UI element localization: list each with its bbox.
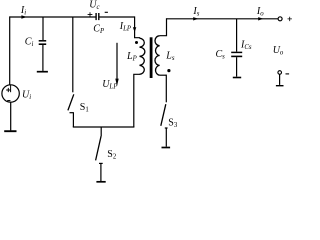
switch S3 bottom stub	[165, 128, 167, 147]
wire top-left rail	[10, 16, 96, 18]
output terminal + circle	[278, 17, 282, 21]
voltage source U1 circle	[2, 85, 19, 102]
wire jog to LP winding	[134, 37, 140, 40]
inductor Ls winding (4 arcs)	[155, 36, 160, 75]
switch S1 bottom stub	[72, 113, 74, 127]
switch S1 fixed contact tick	[70, 112, 74, 114]
ground bar under S3	[162, 147, 171, 149]
polarity dot LP	[135, 41, 138, 44]
wire Ls bottom connector	[160, 74, 167, 76]
ground bar under source	[4, 130, 16, 132]
current arrow ILP (down)	[133, 27, 136, 32]
switch S3 blade	[161, 104, 166, 126]
svg-text:CP: CP	[93, 24, 104, 36]
arrowhead ULP	[115, 79, 118, 86]
svg-text:Ii: Ii	[20, 5, 26, 17]
wire Ls top connector to rail	[160, 18, 167, 36]
capacitor C1 bottom stub	[42, 45, 44, 71]
wire rail CP to corner	[99, 16, 135, 18]
switch S3 fixed contact tick	[165, 127, 168, 129]
capacitor C1 plates	[39, 40, 47, 42]
ground bar under C1	[37, 71, 48, 73]
capacitor C1 top stub	[42, 17, 44, 40]
svg-text:Ui: Ui	[22, 89, 31, 101]
switch S2 blade	[96, 136, 102, 160]
svg-text:Ci: Ci	[25, 36, 34, 48]
capacitor C2 (CP) plates	[95, 13, 97, 20]
wire bottom horizontal	[73, 126, 135, 128]
inductor LP winding (4 arcs)	[140, 38, 145, 74]
wire source bottom to ground	[10, 102, 12, 130]
ground bar under Cs	[233, 77, 241, 79]
wire right rail	[167, 18, 278, 20]
svg-text:Uc: Uc	[89, 0, 99, 11]
svg-text:S2: S2	[107, 149, 117, 161]
svg-text:Ls: Ls	[165, 51, 175, 63]
switch S2 fixed contact tick	[99, 162, 103, 164]
svg-text:ULP: ULP	[102, 79, 117, 91]
switch S3 top stub	[165, 75, 167, 103]
voltage arrow ULP	[116, 43, 118, 79]
switch S1 blade	[68, 94, 74, 110]
svg-text:S3: S3	[168, 118, 178, 130]
bar under - terminal	[276, 85, 284, 87]
capacitor Cs top stub	[236, 19, 238, 52]
switch S2 bottom stub	[100, 163, 102, 181]
plus sign at output	[288, 17, 292, 21]
wire ILP vertical drop	[134, 16, 136, 37]
svg-text:ILP: ILP	[119, 21, 131, 33]
capacitor Cs plates	[231, 51, 242, 53]
svg-text:S1: S1	[80, 102, 89, 114]
svg-text:Is: Is	[192, 6, 199, 18]
svg-text:LP: LP	[126, 51, 137, 63]
wire left vertical to source	[9, 16, 11, 85]
capacitor Cs bottom stub	[236, 57, 238, 76]
transformer core	[150, 37, 153, 78]
minus sign at output	[286, 73, 290, 75]
wire - terminal stub	[279, 74, 281, 85]
svg-text:ICs: ICs	[240, 40, 252, 52]
wire stub into source top	[10, 85, 12, 92]
plus sign at CP	[88, 12, 93, 17]
svg-text:Io: Io	[256, 6, 264, 18]
ground bar under S2	[96, 181, 105, 183]
svg-text:Uo: Uo	[273, 45, 284, 57]
wire LP bottom connector	[134, 74, 140, 127]
switch S2 top stub	[100, 127, 102, 136]
current arrow Ii	[21, 15, 26, 18]
polarity dot Ls	[167, 69, 170, 72]
output terminal - circle	[278, 71, 282, 75]
minus sign at CP	[105, 11, 108, 13]
current arrow Is	[193, 17, 198, 20]
switch S1 top stub	[72, 17, 74, 92]
current arrow Io	[258, 17, 263, 20]
minus sign in source	[7, 100, 10, 102]
plus sign in source	[6, 88, 10, 92]
svg-text:Cs: Cs	[216, 49, 226, 61]
